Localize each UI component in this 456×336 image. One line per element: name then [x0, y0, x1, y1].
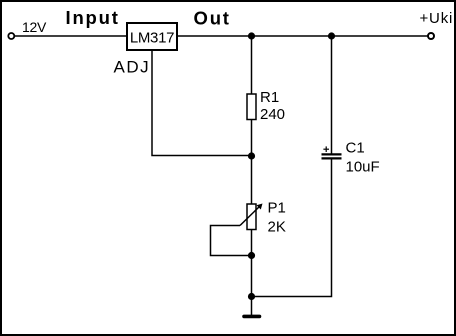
regulator U1 LM317 — [127, 23, 177, 50]
node junction dot at Out/C1 — [328, 32, 335, 39]
svg-text:2K: 2K — [268, 219, 286, 236]
node junction dot at Out/R1 — [248, 32, 255, 39]
wire wiper loop to lower terminal — [211, 226, 252, 256]
wire P1 bottom to ground node — [251, 230, 253, 297]
polarity plus sign of C1 — [323, 148, 329, 150]
svg-text:Input: Input — [66, 7, 120, 28]
terminal 12V input — [8, 33, 14, 39]
ground stem — [251, 297, 253, 316]
potentiometer P1 wiper arrow — [240, 206, 261, 226]
svg-text:C1: C1 — [346, 140, 365, 157]
potentiometer P1 body — [247, 204, 256, 230]
svg-text:LM317: LM317 — [130, 30, 174, 47]
node junction dot ground — [248, 293, 255, 300]
wire: input terminal to LM317 — [14, 35, 126, 37]
wire: LM317 Out to +Uki terminal — [178, 35, 428, 37]
svg-text:R1: R1 — [260, 89, 279, 106]
svg-text:P1: P1 — [268, 200, 286, 217]
wire C1 top branch — [331, 36, 333, 154]
svg-text:ADJ: ADJ — [114, 58, 151, 77]
wire ADJ pin down and right to node — [152, 51, 252, 156]
svg-text:10uF: 10uF — [346, 159, 380, 176]
ground symbol — [244, 315, 260, 319]
resistor R1 body — [247, 94, 256, 120]
capacitor C1 plates — [322, 153, 342, 155]
svg-text:Out: Out — [194, 8, 231, 29]
wire C1 bottom branch — [252, 160, 332, 297]
node junction dot wiper/bottom — [248, 252, 255, 259]
svg-text:240: 240 — [260, 106, 285, 123]
svg-text:+Uki: +Uki — [420, 10, 454, 27]
wire top node down to R1 — [251, 36, 253, 94]
wire R1 bottom through ADJ node to P1 top — [251, 120, 253, 205]
node junction dot ADJ/R1/P1 — [248, 152, 255, 159]
terminal +Uki output — [428, 33, 434, 39]
svg-text:12V: 12V — [22, 19, 47, 35]
